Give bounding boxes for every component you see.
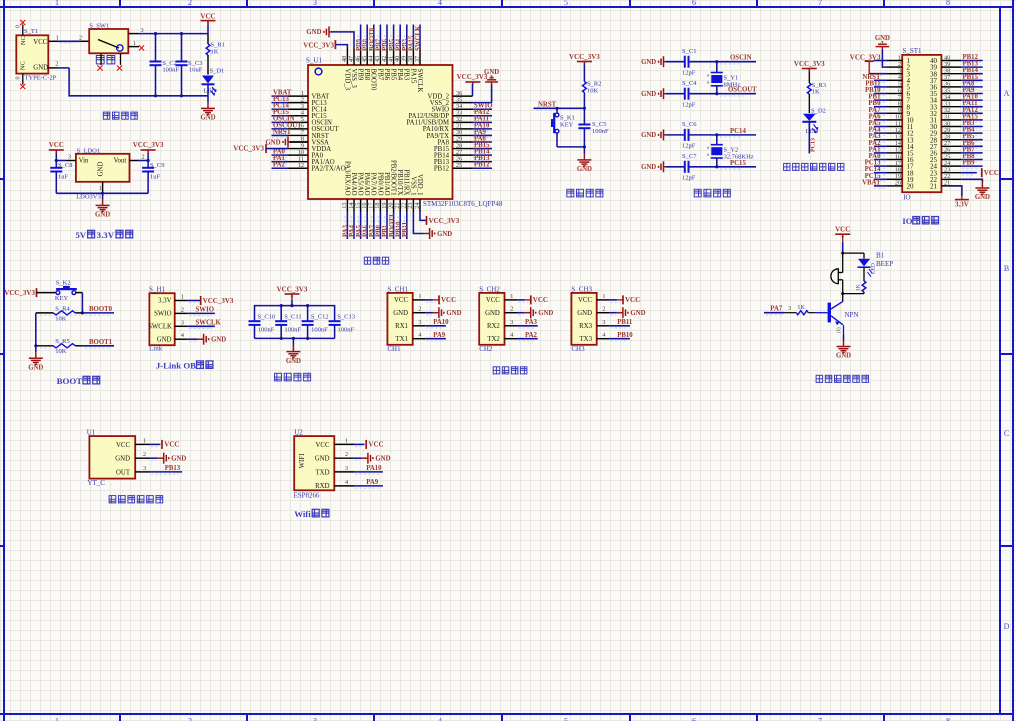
svg-text:GND: GND <box>315 456 330 463</box>
svg-text:PA15: PA15 <box>409 69 416 84</box>
svg-text:GND: GND <box>306 29 321 36</box>
header S_H1 jlink body <box>149 293 174 345</box>
switch bottom pins no-connect <box>100 53 102 65</box>
svg-text:1: 1 <box>55 717 59 722</box>
svg-text:PC13: PC13 <box>810 138 816 152</box>
net label PB13 wire liquid <box>150 471 182 473</box>
svg-text:0: 0 <box>16 25 22 28</box>
header S_ST1 body <box>902 55 941 192</box>
svg-text:100nF: 100nF <box>592 128 609 135</box>
mcu U1 STM32F103C8T6 body <box>308 65 453 199</box>
net label PA3 wire S_CH2 <box>518 325 538 327</box>
svg-text:LED: LED <box>806 128 819 135</box>
switch S_SW1 <box>89 29 128 53</box>
svg-text:5: 5 <box>564 717 568 722</box>
svg-text:5: 5 <box>564 0 568 7</box>
svg-text:S_C10: S_C10 <box>258 314 276 321</box>
svg-text:PB13: PB13 <box>165 465 181 472</box>
resistor S_R1 1K <box>206 44 210 55</box>
svg-text:2: 2 <box>602 306 605 313</box>
module U1 liquid body <box>89 436 135 479</box>
svg-text:3.3V: 3.3V <box>97 230 115 240</box>
net label PB10 wire S_CH3 <box>610 338 630 340</box>
svg-text:20: 20 <box>895 180 901 187</box>
svg-text:PA2: PA2 <box>525 332 538 339</box>
net label PC13 indicator wire <box>808 122 810 154</box>
svg-text:PA6/AO: PA6/AO <box>363 172 370 195</box>
title serial circuit <box>493 367 527 374</box>
LED S_D2 <box>803 114 816 121</box>
svg-text:PB12: PB12 <box>434 166 450 173</box>
svg-text:S_C4: S_C4 <box>682 80 697 87</box>
svg-text:3: 3 <box>143 465 146 472</box>
svg-text:S_K2: S_K2 <box>56 280 71 287</box>
svg-text:3.3V: 3.3V <box>955 201 969 209</box>
svg-text:YT_C: YT_C <box>87 479 105 487</box>
svg-text:A: A <box>1004 89 1010 98</box>
svg-text:GND: GND <box>577 310 592 317</box>
svg-text:S_D1: S_D1 <box>210 68 225 75</box>
mcu right pins <box>453 95 473 97</box>
svg-text:GND: GND <box>975 194 990 201</box>
svg-text:PA9: PA9 <box>366 479 379 486</box>
svg-text:C: C <box>1004 429 1009 438</box>
svg-text:PB11: PB11 <box>402 221 409 237</box>
svg-text:2: 2 <box>345 451 348 458</box>
svg-text:10K: 10K <box>55 315 67 322</box>
ground mcu pin35 <box>473 102 492 104</box>
filter bottom rail <box>254 325 256 339</box>
svg-text:VCC: VCC <box>533 296 548 304</box>
svg-text:8: 8 <box>946 0 950 7</box>
svg-text:BOOT0: BOOT0 <box>370 69 377 92</box>
svg-text:37: 37 <box>414 56 421 62</box>
svg-text:RX2: RX2 <box>487 323 500 330</box>
wire K2 to BOOT0 node <box>76 292 83 294</box>
title J-Link OB <box>156 361 213 371</box>
svg-text:J-Link OB: J-Link OB <box>156 361 196 371</box>
title IO expansion port <box>902 216 938 226</box>
svg-text:3: 3 <box>141 27 144 34</box>
svg-text:2: 2 <box>188 717 192 722</box>
svg-text:GND: GND <box>200 115 215 122</box>
svg-text:PA2: PA2 <box>273 162 286 169</box>
svg-text:1: 1 <box>418 293 421 300</box>
svg-text:SWCLK: SWCLK <box>196 320 222 327</box>
ground mcu pin8 VSSA <box>290 141 308 143</box>
svg-text:LED: LED <box>204 88 217 95</box>
wire GND rail bottom <box>48 67 58 69</box>
svg-text:S_C11: S_C11 <box>284 314 301 321</box>
net label PA2 wire S_CH2 <box>518 338 538 340</box>
svg-text:VCC: VCC <box>200 12 215 20</box>
svg-text:PC15: PC15 <box>730 160 746 167</box>
net label PA9 wire wifi <box>354 485 383 487</box>
svg-text:S_K1: S_K1 <box>560 115 575 122</box>
LED S_D1 <box>202 76 214 84</box>
header left net wires <box>874 79 887 81</box>
svg-text:SWCLK: SWCLK <box>416 69 423 93</box>
svg-text:3: 3 <box>788 305 791 312</box>
svg-text:IO: IO <box>903 194 910 202</box>
svg-text:BEEP: BEEP <box>876 260 893 268</box>
svg-text:PB11/RX: PB11/RX <box>403 169 410 195</box>
svg-text:100nF: 100nF <box>338 326 355 333</box>
svg-text:GND: GND <box>641 132 656 139</box>
svg-text:3.3V: 3.3V <box>158 298 171 305</box>
svg-text:Vin: Vin <box>79 158 89 165</box>
svg-text:1: 1 <box>55 0 59 7</box>
svg-text:3: 3 <box>418 319 421 326</box>
svg-text:NPN: NPN <box>845 311 859 319</box>
title filter circuit <box>275 373 311 381</box>
crystal S_Y1 8MHz <box>716 62 718 73</box>
mcu top pins <box>346 48 348 65</box>
svg-text:PB9: PB9 <box>963 160 976 167</box>
alarm bottom rail <box>843 293 864 295</box>
svg-text:PB4: PB4 <box>396 69 403 81</box>
svg-text:S_Y1: S_Y1 <box>724 75 739 82</box>
ground ldo <box>102 193 104 199</box>
serial header S_CH1 body <box>387 293 412 345</box>
svg-text:12pF: 12pF <box>682 175 696 182</box>
svg-text:S_R2: S_R2 <box>587 81 601 88</box>
svg-text:CH1: CH1 <box>387 345 401 353</box>
svg-text:PB10/TX: PB10/TX <box>396 169 403 195</box>
svg-text:2: 2 <box>181 306 184 313</box>
net label PA9 wire S_CH1 <box>426 338 446 340</box>
svg-text:B: B <box>1004 264 1009 273</box>
svg-text:0: 0 <box>16 77 22 80</box>
svg-text:S_LDO1: S_LDO1 <box>77 147 100 154</box>
title crystal circuit <box>694 189 730 197</box>
capacitor S_C8 1uF <box>55 161 57 168</box>
svg-text:PA7: PA7 <box>770 306 783 313</box>
svg-text:12pF: 12pF <box>682 143 696 150</box>
svg-text:B1: B1 <box>876 252 885 260</box>
svg-text:VCC: VCC <box>368 441 383 449</box>
svg-text:25: 25 <box>456 162 462 169</box>
ground wifi pin2 <box>354 457 362 459</box>
svg-text:3: 3 <box>345 465 348 472</box>
svg-text:PB6: PB6 <box>383 69 390 81</box>
svg-text:3: 3 <box>68 153 71 160</box>
svg-text:PB5: PB5 <box>390 69 397 81</box>
net label NRST wire <box>534 107 585 109</box>
alarm top wire to led branch <box>843 252 864 254</box>
capacitor S_C5 100nF <box>583 108 585 124</box>
switch label kai-guan <box>96 56 115 64</box>
svg-text:1uF: 1uF <box>150 174 161 181</box>
svg-text:S_D2: S_D2 <box>811 108 826 115</box>
svg-text:STM32F103C8T6_LQFP48: STM32F103C8T6_LQFP48 <box>423 200 503 208</box>
svg-text:PB3: PB3 <box>403 69 410 81</box>
ground boot <box>35 346 37 352</box>
regulator S_LDO1 <box>76 154 130 182</box>
liquid module pins <box>135 443 150 445</box>
left rail boot <box>35 313 37 346</box>
power port VCC_3V3 jlink pin1 <box>188 300 201 302</box>
ldo pin2 wire <box>130 160 139 162</box>
svg-text:VCC_3V3: VCC_3V3 <box>277 286 308 294</box>
svg-text:S_R4: S_R4 <box>55 305 70 312</box>
svg-text:D: D <box>1004 622 1010 631</box>
net label OSCOUT wire <box>717 93 756 95</box>
svg-text:3: 3 <box>313 717 317 722</box>
svg-text:VSS_1: VSS_1 <box>409 176 416 195</box>
svg-text:Link: Link <box>149 345 163 353</box>
filter top rail <box>255 306 335 322</box>
switch pin 1 no-connect <box>128 46 139 48</box>
title sound light alarm <box>816 375 868 382</box>
svg-text:VBAT: VBAT <box>862 179 881 186</box>
svg-text:100nF: 100nF <box>311 326 328 333</box>
svg-text:PA10: PA10 <box>366 465 382 472</box>
svg-text:PA3/RX/AO: PA3/RX/AO <box>343 161 350 196</box>
resistor alarm branch <box>863 267 865 281</box>
svg-text:24: 24 <box>414 203 421 209</box>
net label SWIO wire <box>188 312 215 314</box>
svg-text:PB10: PB10 <box>617 332 633 339</box>
svg-text:PB1/AO: PB1/AO <box>383 172 390 196</box>
svg-text:1K: 1K <box>812 89 820 96</box>
net label BOOT1 wire <box>82 345 114 347</box>
svg-text:GND: GND <box>393 310 408 317</box>
mcu right net wires <box>473 108 493 110</box>
svg-text:3: 3 <box>181 319 184 326</box>
svg-text:Wifi: Wifi <box>294 509 311 519</box>
svg-text:RX1: RX1 <box>395 323 408 330</box>
svg-text:S_U1: S_U1 <box>306 57 322 65</box>
mcu top net wires <box>360 25 362 49</box>
svg-text:VCC: VCC <box>316 442 330 449</box>
svg-text:SWCLK: SWCLK <box>148 324 172 331</box>
svg-text:PA9: PA9 <box>433 332 446 339</box>
svg-text:4: 4 <box>438 717 442 722</box>
svg-text:OSCIN: OSCIN <box>730 55 752 62</box>
module U2 wifi body <box>294 436 334 490</box>
svg-text:4: 4 <box>510 332 513 339</box>
svg-text:4: 4 <box>602 332 605 339</box>
svg-text:7: 7 <box>818 0 822 7</box>
svg-text:4: 4 <box>438 0 442 7</box>
ground filter <box>292 338 294 345</box>
svg-text:PB0/AO: PB0/AO <box>376 172 383 196</box>
svg-text:NRST: NRST <box>273 129 292 136</box>
svg-text:S_C5: S_C5 <box>592 121 606 128</box>
svg-text:PC14: PC14 <box>730 128 746 135</box>
capacitor S_C4 12pF <box>666 93 685 95</box>
svg-text:WIFI: WIFI <box>299 453 306 468</box>
key switch S_K2 <box>56 291 60 295</box>
serial header S_CH2 body <box>479 293 504 345</box>
ground header pin22 <box>961 179 982 182</box>
svg-text:GND: GND <box>875 35 890 42</box>
ground liquid pin2 <box>150 457 157 459</box>
svg-text:4: 4 <box>345 479 348 486</box>
title BOOT circuit <box>57 376 100 386</box>
transistor NPN Q1 <box>842 294 844 302</box>
net label PA10 wire wifi <box>354 471 383 473</box>
svg-text:VCC: VCC <box>394 297 408 304</box>
net label PC14 wire <box>717 134 756 136</box>
svg-text:PB7: PB7 <box>376 69 383 81</box>
svg-text:S_C12: S_C12 <box>311 314 329 321</box>
svg-text:S_C13: S_C13 <box>337 314 355 321</box>
wifi module pins <box>334 443 354 445</box>
svg-text:12pF: 12pF <box>682 102 696 109</box>
svg-text:S_T1: S_T1 <box>24 28 38 35</box>
svg-text:GND: GND <box>836 353 851 360</box>
capacitor S_C7 12pF <box>666 166 685 168</box>
resistor S_R4 10K <box>36 312 54 314</box>
pin 0 top no-connect <box>22 25 24 36</box>
svg-text:PA2/TX/AO: PA2/TX/AO <box>312 166 346 173</box>
svg-text:S_ST1: S_ST1 <box>903 47 923 55</box>
svg-text:1: 1 <box>99 185 102 192</box>
resistor S_R2 10K <box>583 82 587 93</box>
svg-text:3: 3 <box>510 319 513 326</box>
svg-text:NRST: NRST <box>538 101 557 108</box>
svg-text:GND: GND <box>630 310 645 317</box>
svg-text:6: 6 <box>692 0 696 7</box>
svg-text:S_CH1: S_CH1 <box>387 285 408 293</box>
mcu bottom net wires <box>346 212 348 239</box>
svg-text:S_C8: S_C8 <box>58 162 72 169</box>
capacitor S_C9 1uF <box>147 161 149 168</box>
power port VCC S_CH3 <box>610 299 617 301</box>
buzzer B1 BEEP <box>831 253 843 294</box>
svg-text:S_CH2: S_CH2 <box>479 285 500 293</box>
svg-text:GND: GND <box>437 231 452 238</box>
resistor S_R5 10K <box>36 345 54 347</box>
power port VCC S_CH2 <box>518 299 525 301</box>
svg-text:GND: GND <box>157 336 172 343</box>
svg-text:VCC_3V3: VCC_3V3 <box>794 60 825 68</box>
alarm emitter wire and ground <box>843 325 845 334</box>
svg-text:TX3: TX3 <box>580 336 593 343</box>
capacitor S_C2 100nF <box>155 34 157 62</box>
svg-text:RX3: RX3 <box>579 323 592 330</box>
svg-text:2: 2 <box>418 306 421 313</box>
svg-text:U1: U1 <box>87 428 96 436</box>
svg-text:21: 21 <box>930 183 938 191</box>
svg-text:1uF: 1uF <box>58 174 69 181</box>
svg-text:TX1: TX1 <box>396 336 408 343</box>
svg-text:1: 1 <box>602 293 605 300</box>
svg-text:PB12: PB12 <box>474 162 490 169</box>
svg-text:1: 1 <box>56 34 59 41</box>
svg-text:VSS_3: VSS_3 <box>350 69 357 89</box>
svg-text:PB9: PB9 <box>357 69 364 81</box>
svg-text:KEY: KEY <box>560 122 574 129</box>
svg-text:1: 1 <box>143 437 146 444</box>
svg-text:PB2/BOOT1: PB2/BOOT1 <box>390 160 397 196</box>
svg-text:CH3: CH3 <box>571 345 585 353</box>
svg-text:S_SW1: S_SW1 <box>89 22 109 29</box>
svg-text:GND: GND <box>446 310 461 317</box>
svg-text:PB11: PB11 <box>617 319 633 326</box>
ground S_CH1 <box>426 312 433 314</box>
svg-text:SWIO: SWIO <box>196 307 215 314</box>
svg-text:4: 4 <box>181 332 184 339</box>
svg-text:PA4/AO: PA4/AO <box>350 172 357 195</box>
svg-text:S_C7: S_C7 <box>682 153 697 160</box>
power port VCC_3V3 mcu pin36 <box>472 84 474 96</box>
title 5V to 3.3V <box>75 230 132 240</box>
svg-text:S_CH3: S_CH3 <box>571 285 592 293</box>
header right pins <box>941 60 961 62</box>
svg-text:VCC: VCC <box>578 297 592 304</box>
svg-text:1K: 1K <box>797 304 805 311</box>
svg-text:TXD: TXD <box>316 469 330 476</box>
svg-text:TX2: TX2 <box>487 336 500 343</box>
svg-text:VCC_3V3: VCC_3V3 <box>233 145 264 153</box>
power port VCC S_CH1 <box>426 299 433 301</box>
title program run indicator <box>784 163 844 170</box>
svg-text:PB8: PB8 <box>363 69 370 81</box>
svg-text:GND: GND <box>485 310 500 317</box>
svg-text:GND: GND <box>538 310 553 317</box>
mcu left pins <box>288 95 308 97</box>
svg-text:PA10: PA10 <box>433 319 449 326</box>
power port VCC wifi pin1 <box>354 443 364 445</box>
svg-text:CH2: CH2 <box>479 345 493 353</box>
key switch S_K1 <box>556 108 558 113</box>
power port VCC header pin23 <box>961 172 977 174</box>
svg-text:1K: 1K <box>211 49 219 56</box>
svg-text:GND: GND <box>641 59 656 66</box>
svg-text:S_C1: S_C1 <box>682 48 696 55</box>
mcu bottom pins <box>346 199 348 212</box>
svg-text:LED: LED <box>871 263 877 274</box>
power port 3.3V header pin21 <box>955 186 962 196</box>
svg-text:BOOT1: BOOT1 <box>89 339 113 346</box>
svg-text:KEY: KEY <box>55 295 69 302</box>
svg-text:VCC: VCC <box>116 442 130 449</box>
svg-text:1K: 1K <box>856 284 862 291</box>
switch pin 3 wire <box>128 33 138 35</box>
svg-text:VCC: VCC <box>164 441 179 449</box>
svg-text:1: 1 <box>133 40 136 47</box>
resistor S_R3 1K <box>807 83 811 94</box>
svg-text:4: 4 <box>418 332 421 339</box>
header right net wires <box>961 60 983 62</box>
svg-text:VCC_3V3: VCC_3V3 <box>569 53 600 61</box>
svg-text:ESP8266: ESP8266 <box>294 492 321 500</box>
svg-text:VCC: VCC <box>486 297 500 304</box>
svg-text:2: 2 <box>188 0 192 7</box>
svg-text:7: 7 <box>818 717 822 722</box>
ground S_CH3 <box>610 312 617 314</box>
svg-text:3: 3 <box>602 319 605 326</box>
svg-text:GND: GND <box>641 91 656 98</box>
title main chip <box>364 257 388 264</box>
svg-text:1: 1 <box>345 437 348 444</box>
pin 0 bottom no-connect <box>22 74 24 85</box>
svg-text:S_C9: S_C9 <box>150 162 164 169</box>
svg-text:2: 2 <box>55 61 58 68</box>
svg-text:2: 2 <box>79 34 82 41</box>
svg-text:GND: GND <box>641 164 656 171</box>
svg-text:Vout: Vout <box>114 158 127 165</box>
svg-text:2: 2 <box>142 153 145 160</box>
ground power circuit <box>201 102 215 114</box>
capacitor S_C1 12pF <box>666 61 685 63</box>
net label PA10 wire S_CH1 <box>426 325 446 327</box>
title power circuit <box>103 112 137 119</box>
svg-text:VDD_3: VDD_3 <box>343 69 350 91</box>
